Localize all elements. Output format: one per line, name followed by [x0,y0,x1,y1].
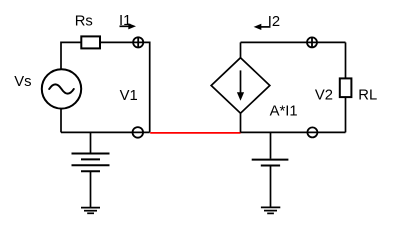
svg-text:Rs: Rs [75,14,93,30]
dependent current source A*I1 (diamond) [211,58,270,113]
earth ground left [81,208,100,214]
voltage source Vs [42,69,81,108]
wire bottom rail right [241,131,346,133]
wire top rail right [241,41,346,43]
battery stack left (plate 2 short) [81,158,100,160]
svg-text:Vs: Vs [14,74,31,90]
svg-text:V1: V1 [120,88,138,104]
wire right ground stub [270,166,272,208]
svg-text:V2: V2 [315,88,333,104]
svg-text:A*I1: A*I1 [270,104,298,120]
node V1+ probe [133,37,143,47]
resistor RL [340,78,352,97]
wire dependent source bottom stub [240,113,242,132]
wire right battery stub [270,132,272,158]
wire Rs to node V1+ and corner down [100,42,150,132]
battery right (plate long) [252,159,289,161]
earth ground right [261,207,280,213]
battery stack left (plate 4 short) [81,170,100,172]
wire right vertical bottom [345,97,347,132]
wire left battery stub [90,132,92,152]
current arrow I2 [254,24,271,30]
battery stack left (plate 3 long) [72,164,110,166]
node V1- probe [133,127,144,138]
node V2+ probe [307,37,317,47]
battery stack left (plate 1 long) [72,153,110,155]
resistor Rs [81,36,100,48]
wire bottom rail left [61,131,150,133]
wire red net V1- to A*I1 [150,132,240,134]
wire dependent source top stub [240,42,242,57]
battery right (plate short) [261,165,280,167]
wire Vs bottom lead [60,109,62,133]
svg-text:RL: RL [358,88,377,104]
current arrow I1 [120,23,137,29]
wire right vertical top [345,42,347,78]
node V2- probe [307,127,317,137]
wire left ground stub [90,171,92,207]
wire Vs top lead [61,42,81,69]
